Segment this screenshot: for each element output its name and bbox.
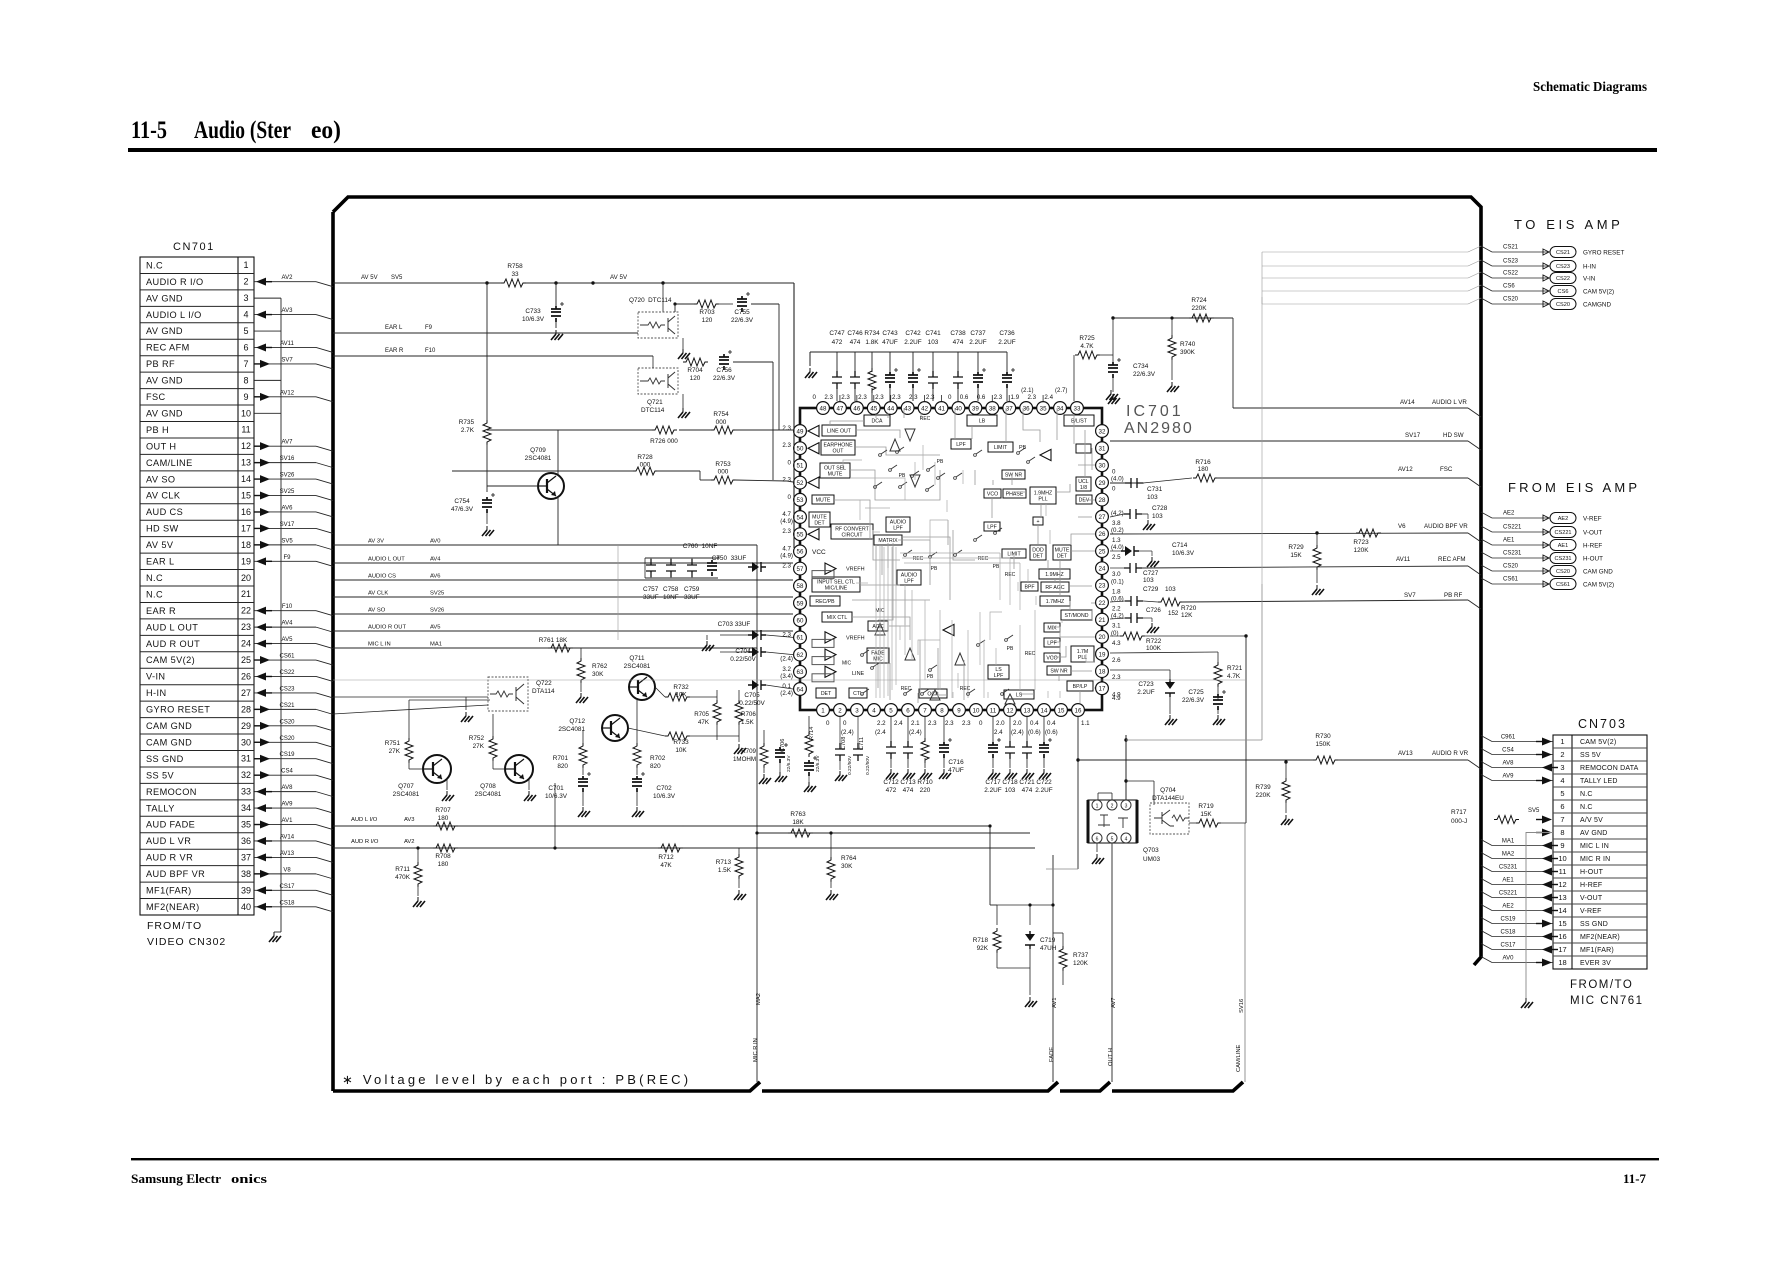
- svg-text:47UF: 47UF: [948, 767, 964, 774]
- capacitor C705 0.22/50V: [748, 680, 766, 690]
- resistor R726 000: [652, 426, 677, 434]
- svg-text:MIC: MIC: [873, 657, 883, 663]
- resistor R730 150K: [1313, 756, 1338, 764]
- svg-text:10/6.3V: 10/6.3V: [522, 316, 545, 323]
- svg-text:AV 3V: AV 3V: [368, 539, 384, 545]
- wire CN703 pin 16 net CS18: [1481, 931, 1492, 937]
- wire MIC L IN / MA1: [333, 647, 757, 649]
- wire CN701 pin 6 net AV11: [254, 346, 316, 348]
- svg-text:4: 4: [1125, 837, 1128, 843]
- svg-text:2.2UF: 2.2UF: [969, 339, 986, 346]
- wire CN703 pin 13 net CS221: [1481, 892, 1492, 898]
- resistor R714 4.7K: [805, 732, 813, 757]
- svg-text:47K: 47K: [698, 719, 710, 726]
- wire CN701 pin 19 net F9: [254, 560, 316, 562]
- connector AE2 from EIS amp: [1481, 512, 1492, 518]
- svg-text:DCA: DCA: [872, 418, 883, 424]
- svg-text:820: 820: [650, 763, 661, 770]
- svg-text:AE2: AE2: [1503, 511, 1515, 517]
- svg-text:SW NR: SW NR: [1005, 472, 1023, 478]
- IC701 top pins 48-33: [817, 402, 830, 415]
- op-amp buffer at pin 63: [825, 666, 836, 677]
- svg-text:AV1: AV1: [282, 818, 294, 824]
- svg-text:AV14: AV14: [280, 834, 295, 840]
- svg-text:MUTE: MUTE: [816, 497, 831, 503]
- svg-text:H-REF: H-REF: [1583, 543, 1602, 550]
- svg-text:18: 18: [1099, 668, 1106, 675]
- svg-text:CS22: CS22: [1556, 276, 1570, 282]
- svg-text:CS221: CS221: [1554, 530, 1571, 536]
- svg-text:R721: R721: [1227, 665, 1243, 672]
- svg-text:REC AFM: REC AFM: [1438, 556, 1466, 563]
- capacitor C704 0.22/50V: [748, 647, 766, 657]
- svg-text:2.2UF: 2.2UF: [1035, 787, 1052, 794]
- svg-text:(2.4): (2.4): [780, 690, 793, 697]
- svg-text:2.3: 2.3: [926, 394, 935, 401]
- svg-text:AV3: AV3: [404, 817, 415, 823]
- svg-text:MIC CN761: MIC CN761: [1570, 995, 1644, 1007]
- svg-text:Q722: Q722: [536, 680, 552, 687]
- svg-text:12: 12: [1558, 880, 1566, 889]
- svg-text:5: 5: [889, 707, 893, 714]
- svg-text:C738: C738: [950, 330, 966, 337]
- capacitor C717 2.2UF: [992, 716, 994, 742]
- svg-text:12: 12: [1007, 707, 1014, 714]
- svg-text:EAR R: EAR R: [146, 606, 176, 616]
- capacitor cluster extra: [707, 560, 717, 576]
- capacitor C733 10/6.3V: [555, 283, 557, 306]
- svg-text:22: 22: [1099, 600, 1106, 607]
- svg-text:CS17: CS17: [279, 884, 295, 890]
- svg-text:12: 12: [241, 441, 251, 451]
- wire AV12 FSC: [1110, 482, 1144, 484]
- svg-text:474: 474: [1022, 787, 1033, 794]
- resistor R701 820: [579, 743, 587, 768]
- svg-text:Q704: Q704: [1160, 787, 1176, 794]
- svg-text:2: 2: [838, 707, 842, 714]
- svg-text:1.8: 1.8: [1112, 588, 1121, 595]
- svg-text:40: 40: [241, 902, 251, 912]
- wire AUDIO R OUT / AV5: [333, 630, 793, 632]
- capacitor C742 2.2UF: [912, 352, 914, 372]
- wire AV CLK / SV25: [333, 596, 793, 598]
- svg-text:26: 26: [1099, 531, 1106, 538]
- capacitor C743 47UF: [889, 352, 891, 372]
- svg-text:(4.9): (4.9): [780, 518, 793, 525]
- top EIS feed lines inside: [1262, 251, 1468, 253]
- svg-text:29: 29: [1099, 480, 1106, 487]
- svg-text:58: 58: [797, 583, 804, 590]
- svg-text:103: 103: [1005, 787, 1016, 794]
- svg-text:AV2: AV2: [404, 839, 415, 845]
- svg-text:(2.4: (2.4: [875, 729, 886, 736]
- svg-text:2.5: 2.5: [1112, 554, 1121, 561]
- svg-text:17: 17: [1558, 945, 1566, 954]
- svg-text:SS GND: SS GND: [146, 754, 184, 764]
- svg-text:AE2: AE2: [1558, 516, 1569, 522]
- svg-text:onics: onics: [231, 1172, 267, 1186]
- svg-text:54: 54: [797, 514, 804, 521]
- svg-text:472: 472: [886, 787, 897, 794]
- svg-text:UCL: UCL: [1078, 479, 1088, 485]
- svg-text:2.2UF: 2.2UF: [904, 339, 921, 346]
- svg-text:1: 1: [1560, 737, 1564, 746]
- svg-text:35: 35: [241, 820, 251, 830]
- svg-text:SV25: SV25: [430, 591, 444, 597]
- svg-text:150K: 150K: [1316, 741, 1332, 748]
- connector CS6 to EIS amp: [1481, 285, 1492, 291]
- svg-text:CS20: CS20: [1556, 569, 1570, 575]
- IC701 internal routing wires 2: [875, 545, 877, 698]
- capacitor C706 22/6.3V: [775, 747, 785, 763]
- IC701 switch contacts 2: [904, 693, 907, 696]
- svg-text:SV7: SV7: [281, 357, 293, 363]
- svg-text:63: 63: [797, 669, 804, 676]
- svg-text:CS19: CS19: [1500, 917, 1516, 923]
- svg-text:2.7K: 2.7K: [461, 427, 475, 434]
- svg-text:C717: C717: [985, 779, 1001, 786]
- svg-text:V-OUT: V-OUT: [1583, 530, 1602, 537]
- op-amp IC U IC701 AN2980 outline: [800, 408, 1102, 710]
- capacitor C731 103: [1125, 478, 1143, 488]
- wire AV13 AUDIO R VR: [1077, 716, 1079, 869]
- svg-text:44: 44: [887, 405, 894, 412]
- svg-text:10/6.3V: 10/6.3V: [1172, 550, 1195, 557]
- svg-text:A/V 5V: A/V 5V: [1580, 817, 1603, 824]
- svg-text:C701: C701: [548, 785, 564, 792]
- resistor R735 2.7K: [483, 420, 491, 445]
- svg-text:AV13: AV13: [280, 851, 295, 857]
- svg-text:38: 38: [989, 405, 996, 412]
- capacitor C736 2.2UF: [1006, 352, 1008, 372]
- svg-text:AV7: AV7: [282, 440, 294, 446]
- svg-text:MUTE: MUTE: [812, 514, 827, 520]
- svg-text:F10: F10: [282, 604, 293, 610]
- svg-text:CS23: CS23: [1556, 264, 1570, 270]
- svg-text:13: 13: [241, 458, 251, 468]
- vertical feed x794 VCC: [793, 283, 795, 548]
- svg-text:0: 0: [1112, 485, 1116, 492]
- svg-text:3.1: 3.1: [1112, 623, 1121, 630]
- capacitor C721 474: [1026, 716, 1028, 742]
- svg-text:AV0: AV0: [430, 539, 441, 545]
- svg-text:(4.0): (4.0): [1111, 544, 1124, 551]
- wire AV SO / SV26: [333, 613, 793, 615]
- wire SV17 HD SW: [1110, 440, 1468, 442]
- svg-text:C721: C721: [1019, 779, 1035, 786]
- svg-text:CAM 5V(2): CAM 5V(2): [1583, 289, 1614, 296]
- svg-text:SV7: SV7: [1404, 592, 1416, 599]
- svg-text:0.4: 0.4: [1047, 720, 1056, 727]
- svg-text:0.22/50V: 0.22/50V: [847, 755, 853, 775]
- svg-text:CS221: CS221: [1499, 891, 1518, 897]
- wire CN703 pin8 AV GND to ground: [1526, 833, 1553, 999]
- ground: [907, 769, 909, 773]
- resistor R719 15K: [1196, 819, 1221, 827]
- svg-text:1.9: 1.9: [1011, 394, 1020, 401]
- svg-text:10NF: 10NF: [663, 594, 679, 601]
- svg-text:33: 33: [241, 787, 251, 797]
- svg-text:R707: R707: [435, 807, 451, 814]
- ground: [580, 693, 582, 697]
- svg-text:REC/PB: REC/PB: [815, 599, 835, 605]
- svg-text:R763: R763: [790, 811, 806, 818]
- wire CN703 pin 18 net AV0: [1481, 957, 1492, 963]
- svg-text:3: 3: [855, 707, 859, 714]
- svg-text:C758: C758: [663, 586, 679, 593]
- ground: [1029, 997, 1031, 1001]
- ground: [1043, 769, 1045, 773]
- svg-text:24: 24: [1099, 566, 1106, 573]
- svg-text:CS4: CS4: [281, 769, 293, 775]
- svg-text:AUDIO L OUT: AUDIO L OUT: [368, 557, 405, 563]
- svg-text:CS19: CS19: [279, 752, 295, 758]
- op-amp buffer at pin 52: [808, 477, 819, 488]
- svg-text:13: 13: [1024, 707, 1031, 714]
- svg-text:R712: R712: [658, 854, 674, 861]
- svg-text:10K: 10K: [675, 747, 687, 754]
- svg-text:22/6.3V: 22/6.3V: [786, 755, 792, 772]
- svg-text:AV9: AV9: [1503, 774, 1515, 780]
- svg-text:53: 53: [797, 497, 804, 504]
- wire CN701 pin 32 net CS4: [254, 774, 316, 776]
- wire CN701 pin 27 net CS23: [254, 692, 316, 694]
- wire CN701 pin 39 net CS17: [254, 889, 316, 891]
- svg-text:SV5: SV5: [391, 275, 403, 281]
- svg-text:CTL: CTL: [853, 691, 863, 697]
- svg-text:R764: R764: [841, 855, 857, 862]
- svg-text:000: 000: [718, 469, 729, 476]
- svg-text:CS20: CS20: [279, 736, 295, 742]
- svg-text:MUTE: MUTE: [1055, 547, 1070, 553]
- wire CN701 pin 7 net SV7: [254, 363, 316, 365]
- svg-text:9: 9: [1560, 841, 1564, 850]
- capacitor C718 103: [1009, 716, 1011, 742]
- svg-text:V-REF: V-REF: [1583, 516, 1602, 523]
- svg-text:AV1: AV1: [1052, 997, 1058, 1008]
- svg-text:CAM GND: CAM GND: [1583, 569, 1613, 576]
- svg-text:TO EIS AMP: TO EIS AMP: [1514, 217, 1623, 232]
- svg-text:47K: 47K: [660, 862, 672, 869]
- svg-text:4.7: 4.7: [782, 511, 791, 518]
- resistor R721 4.7K: [1214, 662, 1222, 687]
- svg-text:Q709: Q709: [530, 447, 546, 454]
- svg-text:R753: R753: [715, 461, 731, 468]
- svg-text:AV CLK: AV CLK: [368, 591, 388, 597]
- svg-text:220K: 220K: [1256, 792, 1272, 799]
- transistor Q711 2SC4081: [629, 674, 655, 700]
- svg-text:LINE OUT: LINE OUT: [827, 428, 852, 434]
- wire CN703 pin 4 net AV9: [1481, 775, 1492, 781]
- svg-text:R735: R735: [459, 419, 475, 426]
- svg-text:PB RF: PB RF: [146, 359, 175, 369]
- svg-text:0.4: 0.4: [1030, 720, 1039, 727]
- svg-text:CAM/LINE: CAM/LINE: [146, 458, 193, 468]
- svg-text:AUDIO: AUDIO: [890, 519, 906, 525]
- wire CN701 pin 9 net AV12: [254, 396, 316, 398]
- svg-text:LINE: LINE: [852, 671, 865, 677]
- resistor R724 220K: [1189, 314, 1214, 322]
- svg-text:MF2(NEAR): MF2(NEAR): [146, 902, 200, 912]
- ground: [1112, 394, 1114, 398]
- svg-text:C716: C716: [948, 759, 964, 766]
- svg-text:4.3: 4.3: [1112, 640, 1121, 647]
- svg-text:103: 103: [1147, 494, 1158, 501]
- svg-text:CS231: CS231: [1554, 556, 1571, 562]
- resistor R725 4.7K: [1075, 351, 1100, 359]
- svg-text:MA2: MA2: [756, 993, 762, 1005]
- svg-text:0: 0: [1112, 468, 1116, 475]
- svg-text:N.C: N.C: [146, 573, 163, 583]
- wire Q703 top feeds: [1125, 735, 1127, 800]
- op-amp buffer at pin 50: [808, 443, 819, 454]
- svg-text:DEV: DEV: [1079, 497, 1090, 503]
- svg-text:28: 28: [241, 704, 251, 714]
- svg-text:R726 000: R726 000: [650, 438, 678, 445]
- wire OUT H vertical exit: [1111, 843, 1113, 1082]
- IC701 switch contacts: [879, 454, 882, 457]
- svg-text:Audio (Ster: Audio (Ster: [194, 117, 291, 144]
- ground near top right: [1110, 390, 1112, 394]
- svg-text:GYRO RESET: GYRO RESET: [146, 705, 210, 715]
- svg-text:2.4: 2.4: [894, 720, 903, 727]
- svg-text:C704: C704: [735, 648, 751, 655]
- svg-text:SV25: SV25: [280, 489, 295, 495]
- svg-text:AUDIO: AUDIO: [901, 572, 917, 578]
- svg-text:PB: PB: [1019, 445, 1027, 451]
- svg-text:0.22/50V: 0.22/50V: [739, 700, 765, 707]
- ground: [273, 932, 275, 936]
- svg-text:DET: DET: [1033, 554, 1044, 560]
- svg-text:C747: C747: [829, 330, 845, 337]
- svg-text:3: 3: [243, 293, 248, 303]
- svg-text:REC: REC: [1025, 651, 1036, 657]
- svg-text:CS20: CS20: [1503, 564, 1519, 570]
- connector CS231 from EIS amp: [1481, 552, 1492, 558]
- svg-text:C754: C754: [454, 498, 470, 505]
- svg-text:R708: R708: [435, 853, 451, 860]
- svg-text:34: 34: [241, 803, 251, 813]
- connector CS20 to EIS amp: [1481, 298, 1492, 304]
- svg-text:C718: C718: [1002, 779, 1018, 786]
- op-amp internal triangles: [890, 439, 900, 451]
- resistor R711 470K: [414, 862, 422, 887]
- capacitor C729 103: [1125, 596, 1143, 606]
- svg-text:OUT H: OUT H: [146, 441, 176, 451]
- svg-text:15K: 15K: [1200, 811, 1212, 818]
- svg-text:9: 9: [243, 392, 248, 402]
- wire CN703 pin 3 net AV8: [1481, 762, 1492, 768]
- svg-text:22/6.3V: 22/6.3V: [815, 755, 821, 772]
- svg-text:C742: C742: [905, 330, 921, 337]
- svg-text:HD SW: HD SW: [146, 524, 179, 534]
- svg-text:C733: C733: [525, 308, 541, 315]
- svg-text:AUDIO R VR: AUDIO R VR: [1432, 750, 1469, 757]
- svg-text:CS22: CS22: [279, 670, 295, 676]
- svg-text:180: 180: [438, 815, 449, 822]
- ground: [1151, 557, 1153, 561]
- svg-text:36: 36: [1023, 405, 1030, 412]
- svg-text:CN703: CN703: [1578, 717, 1627, 731]
- svg-text:MIX CTL: MIX CTL: [827, 615, 848, 621]
- svg-text:17: 17: [1099, 686, 1106, 693]
- svg-text:R740: R740: [1180, 341, 1196, 348]
- svg-text:16: 16: [1558, 932, 1566, 941]
- svg-text:REC: REC: [920, 416, 931, 422]
- svg-text:0: 0: [813, 394, 817, 401]
- svg-text:ST/MOND: ST/MOND: [1065, 613, 1089, 619]
- ground: [809, 368, 811, 372]
- capacitor C713 474: [907, 716, 909, 742]
- svg-text:MF1(FAR): MF1(FAR): [1580, 947, 1614, 954]
- svg-text:4.7K: 4.7K: [1227, 673, 1241, 680]
- wire CN703 pin 10 net MA2: [1481, 853, 1492, 859]
- svg-text:2.3: 2.3: [782, 528, 791, 535]
- svg-text:2: 2: [1111, 804, 1114, 810]
- svg-text:35: 35: [1040, 405, 1047, 412]
- svg-text:AE1: AE1: [1503, 538, 1515, 544]
- svg-text:30: 30: [241, 737, 251, 747]
- capacitor C757 33UF: [646, 559, 656, 577]
- svg-text:33: 33: [511, 271, 519, 278]
- svg-text:R709: R709: [741, 748, 756, 755]
- ground: [1169, 715, 1171, 719]
- svg-text:C722: C722: [1036, 779, 1052, 786]
- svg-text:DTA114: DTA114: [532, 688, 555, 695]
- wire MIC R IN vertical exit: [756, 648, 758, 1082]
- svg-text:2.2UF: 2.2UF: [984, 787, 1001, 794]
- svg-text:B/L/ST: B/L/ST: [1071, 418, 1088, 424]
- ground: [555, 330, 557, 334]
- svg-text:1: 1: [1096, 804, 1099, 810]
- capacitor C738 474: [957, 352, 959, 372]
- svg-text:FADE: FADE: [1049, 1047, 1055, 1062]
- svg-text:C702: C702: [656, 785, 672, 792]
- svg-text:32: 32: [1099, 428, 1106, 435]
- svg-text:SV17: SV17: [280, 522, 295, 528]
- capacitor C725 22/6.3V: [1213, 694, 1223, 710]
- connector CS21 to EIS amp: [1481, 246, 1492, 252]
- svg-text:MIC R IN: MIC R IN: [1580, 856, 1610, 863]
- svg-text:(3.4): (3.4): [780, 673, 793, 680]
- svg-text:R751: R751: [385, 740, 401, 747]
- resistor R758 33: [501, 279, 526, 287]
- svg-text:2.4: 2.4: [994, 729, 1003, 736]
- connector CS23 to EIS amp: [1481, 260, 1492, 266]
- svg-text:(2.4): (2.4): [780, 656, 793, 663]
- svg-text:0: 0: [788, 494, 792, 501]
- svg-text:EAR R: EAR R: [385, 348, 404, 354]
- svg-text:C726: C726: [1146, 607, 1161, 614]
- gray bus vertical x1262: [1261, 297, 1263, 584]
- R718 C719 R737 network: [997, 904, 1053, 906]
- capacitor C708 0.22/50V: [835, 743, 845, 761]
- svg-text:AV7: AV7: [1111, 997, 1117, 1008]
- svg-text:0: 0: [948, 394, 952, 401]
- svg-text:CAM 5V(2): CAM 5V(2): [1583, 582, 1614, 589]
- svg-text:(4.0): (4.0): [1111, 475, 1124, 482]
- svg-text:C705: C705: [744, 692, 760, 699]
- wire CN701 pin 16 net AV6: [254, 511, 316, 513]
- svg-text:F10: F10: [425, 348, 436, 354]
- svg-text:R718: R718: [973, 937, 989, 944]
- wire AUD L I/O / AV3: [333, 825, 990, 827]
- ground: [943, 769, 945, 773]
- svg-text:(4.9): (4.9): [780, 552, 793, 559]
- svg-text:4.7K: 4.7K: [1080, 343, 1094, 350]
- svg-text:180: 180: [438, 861, 449, 868]
- svg-text:10/6.3V: 10/6.3V: [545, 793, 568, 800]
